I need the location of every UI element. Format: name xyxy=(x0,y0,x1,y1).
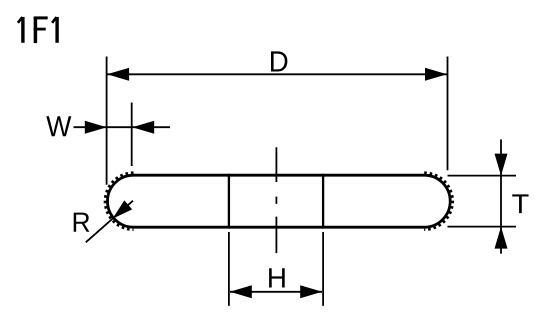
W arrow left (points right) xyxy=(85,121,107,134)
H extension line right xyxy=(322,232,324,306)
D label xyxy=(271,51,287,71)
bore line right xyxy=(322,174,324,229)
D extension line right xyxy=(447,57,449,171)
H dimension line xyxy=(230,291,322,293)
wheel body (capsule outline) xyxy=(108,175,451,227)
bore line left xyxy=(228,174,230,229)
W arrow right (points left) xyxy=(132,121,154,134)
H arrow right (points right) xyxy=(300,285,322,298)
D arrow left xyxy=(107,68,129,81)
label 1F1 (wheel type designation, custom glyphs) xyxy=(18,17,57,43)
T label xyxy=(512,194,528,213)
H extension line left xyxy=(228,232,230,306)
R leader line xyxy=(86,201,133,243)
abrasive stipple right cap xyxy=(424,173,452,230)
W label xyxy=(46,116,71,136)
W extension line (second) xyxy=(131,103,133,167)
D arrow right xyxy=(425,68,447,81)
R arrow (points down-left at radius) xyxy=(113,200,133,218)
D extension line left xyxy=(106,57,108,185)
H label xyxy=(269,268,285,287)
T arrow bottom (points up) xyxy=(495,227,508,249)
abrasive stipple left cap xyxy=(105,173,133,230)
T extension line top xyxy=(448,175,517,177)
center line (dash-dot) xyxy=(275,147,277,253)
H arrow left (points left) xyxy=(230,285,252,298)
T arrow top (points down) xyxy=(495,154,508,176)
T dimension line xyxy=(500,139,502,253)
T extension line bottom xyxy=(448,226,517,228)
W dimension line xyxy=(74,126,171,128)
D dimension line xyxy=(107,73,447,75)
R label xyxy=(74,213,90,232)
